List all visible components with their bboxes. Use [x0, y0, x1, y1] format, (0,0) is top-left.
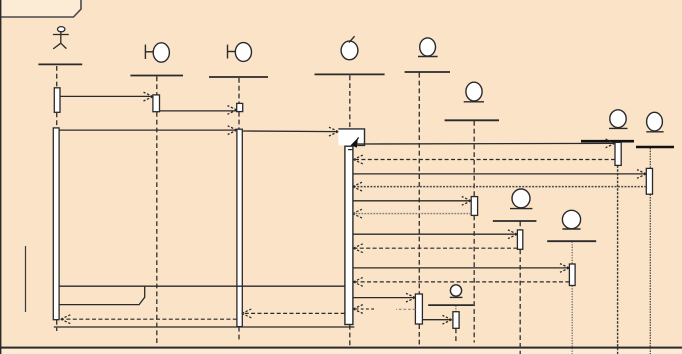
activation bar E1	[415, 294, 422, 324]
activation bar B2 tall	[237, 129, 242, 326]
entity icon E7	[450, 285, 463, 298]
actor stick figure	[53, 27, 69, 49]
message M3 actor to B2	[59, 126, 237, 135]
entity icon E6	[562, 210, 580, 229]
message M11 control to E5	[353, 230, 517, 239]
boundary B1 name underline	[130, 75, 183, 77]
control icon C	[341, 36, 358, 60]
page bottom border	[0, 347, 682, 354]
control object box	[338, 128, 364, 145]
activation bar B2 small	[237, 103, 243, 111]
activation bar E4	[646, 168, 652, 194]
message M4 B2 to control box	[242, 127, 338, 136]
message M12 return E5 to control dashed	[353, 244, 517, 253]
message M22 bottom long line	[54, 326, 355, 328]
activation bar E5	[517, 230, 522, 249]
message M19 return control to B2 dashed	[242, 309, 345, 318]
entity icon E4	[646, 112, 663, 132]
entity E4 name underline thick	[636, 146, 674, 149]
lifeline entity E6 dotted	[571, 242, 573, 354]
entity icon E1	[418, 38, 438, 57]
actor name underline	[38, 63, 82, 65]
message M16 actor self loop	[59, 286, 144, 304]
page left border	[0, 0, 1, 354]
lifeline entity E2	[473, 121, 475, 343]
entity E5 name underline	[493, 220, 537, 222]
lifeline entity E4	[649, 148, 651, 354]
entity E1 name underline	[405, 71, 450, 73]
activation bar E2	[471, 197, 477, 216]
message M9 control to E2	[353, 197, 471, 206]
message M17 control to E1	[353, 293, 415, 302]
entity E3 name underline thick	[581, 140, 634, 143]
lifeline control C	[349, 75, 351, 347]
entity icon E2	[464, 82, 484, 102]
activation bar actor A2 tall	[53, 128, 59, 320]
lifeline boundary B2	[238, 78, 240, 341]
message M15 actor to control long	[59, 285, 345, 287]
message M10 return E2 to control dotted	[353, 209, 472, 218]
message M18 return E1 to control dashed	[353, 305, 415, 314]
message M5 control to E3	[357, 139, 615, 148]
message M2 B1 to B2	[160, 106, 237, 115]
lifeline boundary B1	[156, 77, 158, 346]
lifeline entity E7	[455, 306, 457, 341]
entity E2 name underline	[445, 119, 499, 121]
message M21 E1 to E7	[423, 315, 452, 324]
filled arrowhead at control box	[352, 137, 359, 146]
entity E6 name underline	[547, 240, 596, 242]
entity icon E3	[609, 110, 628, 129]
activation bar C	[345, 146, 353, 324]
message M1 actor to B1	[60, 92, 153, 101]
activation bar actor A1	[54, 88, 60, 113]
entity icon E5	[510, 189, 532, 209]
message M14 return E6 to control dashed	[353, 278, 569, 287]
message M20 return B2 to actor dashed	[61, 315, 237, 324]
control name underline	[315, 73, 385, 75]
boundary B2 name underline	[209, 76, 268, 78]
boundary icon B2	[228, 43, 252, 62]
activation bar E3	[615, 142, 621, 165]
message M8 return E4 to control gray dashed	[353, 182, 647, 191]
message M13 control to E6	[353, 264, 569, 273]
activation bar B1	[153, 95, 160, 112]
message M6 return E3 to control dashed	[353, 155, 615, 164]
frame corner shape top-left	[0, 0, 81, 17]
lifeline entity E5	[519, 222, 521, 354]
lifeline actor	[56, 66, 58, 331]
activation bar E6	[569, 264, 575, 286]
activation bar E7	[453, 312, 459, 329]
boundary icon B1	[145, 43, 169, 62]
stray vertical line	[25, 246, 27, 312]
lifeline entity E3	[617, 166, 619, 354]
message M7 control to E4	[353, 170, 646, 179]
lifeline entity E1	[418, 73, 420, 345]
entity E7 name underline	[428, 304, 473, 306]
